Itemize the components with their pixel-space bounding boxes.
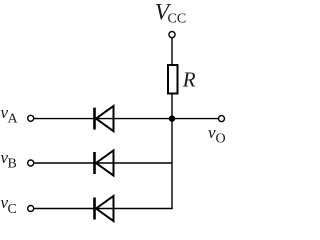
wire VCC to resistor xyxy=(171,38,173,65)
resistor R xyxy=(168,65,178,94)
svg-text:CC: CC xyxy=(168,12,187,27)
svg-text:R: R xyxy=(182,68,196,92)
wire row A xyxy=(34,118,219,120)
junction node xyxy=(169,115,175,121)
svg-text:A: A xyxy=(8,112,19,127)
wire row C xyxy=(34,208,173,210)
terminal input B xyxy=(28,160,34,166)
diode D2 xyxy=(95,150,114,175)
svg-text:C: C xyxy=(8,202,17,217)
label vC xyxy=(1,193,17,217)
svg-text:O: O xyxy=(216,131,226,146)
terminal VCC xyxy=(169,31,175,37)
node VCC label xyxy=(155,0,186,27)
diode D1 xyxy=(95,106,114,131)
label vB xyxy=(1,148,17,172)
svg-text:B: B xyxy=(8,157,17,172)
wire resistor to node, down to row C xyxy=(171,94,173,209)
label vA xyxy=(1,103,19,127)
diode D3 xyxy=(95,196,114,221)
label vO xyxy=(208,123,226,147)
terminal input C xyxy=(28,206,34,212)
terminal output xyxy=(219,116,225,122)
terminal input A xyxy=(28,115,34,121)
wire row B xyxy=(34,162,172,164)
